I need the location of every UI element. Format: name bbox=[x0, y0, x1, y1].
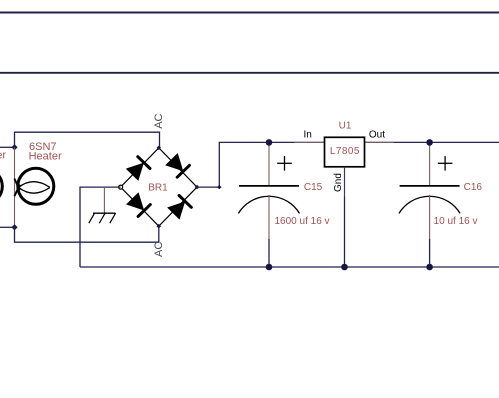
diode D-topleft bbox=[126, 163, 144, 181]
pin stub Out bbox=[365, 141, 394, 143]
capacitor C15 curved plate bbox=[238, 196, 299, 213]
tube V1 filament lower arc bbox=[19, 187, 50, 193]
svg-text:U1: U1 bbox=[339, 120, 352, 131]
capacitor C15 top lead bbox=[268, 142, 270, 186]
ground symbol bbox=[93, 212, 115, 214]
pin Gnd lead bbox=[344, 167, 346, 197]
junction dot C16 bottom bbox=[426, 264, 433, 271]
svg-text:AC: AC bbox=[153, 113, 165, 128]
svg-text:Heater: Heater bbox=[29, 151, 62, 163]
regulator U1 L7805 box bbox=[325, 137, 365, 167]
wire DC plus from right vertex bbox=[197, 142, 325, 187]
capacitor C15 plate bbox=[239, 185, 299, 187]
capacitor C16 curved plate bbox=[399, 196, 460, 213]
svg-text:BR1: BR1 bbox=[148, 183, 168, 194]
bridge BR1 edges bbox=[121, 148, 197, 226]
wire tube pins vertical bbox=[14, 147, 16, 227]
page rule second bbox=[0, 72, 499, 74]
svg-text:Out: Out bbox=[369, 130, 385, 141]
wire C16 bottom bbox=[429, 239, 431, 267]
wire C15 bottom bbox=[268, 239, 270, 267]
svg-text:1600 uf 16 v: 1600 uf 16 v bbox=[275, 216, 330, 227]
svg-text:C15: C15 bbox=[304, 182, 323, 193]
capacitor C16 bottom lead pin bbox=[429, 195, 431, 239]
tube V1 filament left tick A bbox=[14, 179, 19, 191]
junction dot C16 top bbox=[426, 139, 433, 146]
diode D-bottomleft bbox=[126, 192, 144, 210]
diode D-topright bbox=[165, 153, 183, 171]
svg-text:AC: AC bbox=[153, 242, 165, 257]
capacitor C16 plate bbox=[400, 185, 460, 187]
wire DC plus out side bbox=[365, 141, 499, 143]
wire left tube branch top bbox=[0, 146, 15, 148]
wire heater bottom bbox=[15, 226, 159, 242]
C16 polarity plus sign bbox=[438, 162, 453, 164]
tube V2 partial (cut at left edge) bbox=[0, 168, 2, 204]
junction dot top bbox=[11, 144, 17, 150]
diode D-bottomright bbox=[167, 201, 185, 219]
junction dot Gnd bottom bbox=[341, 264, 348, 271]
svg-text:C16: C16 bbox=[464, 182, 483, 193]
C15 polarity plus sign bbox=[277, 162, 292, 164]
wire DC minus bottom rail bbox=[80, 266, 499, 268]
svg-text:10 uf 16 v: 10 uf 16 v bbox=[434, 216, 478, 227]
capacitor C16 top lead bbox=[429, 142, 431, 186]
bridge vertex right dot bbox=[195, 185, 200, 190]
svg-text:In: In bbox=[304, 130, 312, 141]
wire heater top rail bbox=[15, 132, 160, 148]
bridge vertex top dot bbox=[157, 146, 161, 150]
page rule top bbox=[0, 12, 499, 14]
bridge vertex bottom dot bbox=[157, 224, 162, 229]
pin stub In bbox=[295, 141, 325, 143]
bridge vertex left circle bbox=[119, 185, 123, 189]
tube V1 filament left tick B bbox=[14, 185, 19, 197]
ground lead bbox=[103, 187, 105, 213]
svg-text:Gnd: Gnd bbox=[333, 173, 344, 192]
svg-text:L7805: L7805 bbox=[330, 146, 360, 157]
tube V1 filament upper arc bbox=[19, 182, 50, 188]
junction dot corner bbox=[217, 185, 221, 189]
tube V1 6SN7 envelope bbox=[18, 168, 54, 204]
wire left tube branch bottom bbox=[0, 226, 15, 228]
capacitor C15 bottom lead pin bbox=[268, 195, 270, 239]
wire DC minus from left vertex bbox=[80, 187, 121, 267]
svg-text:Heater: Heater bbox=[0, 149, 6, 161]
junction dot C15 bottom bbox=[266, 264, 273, 271]
junction dot bottom bbox=[11, 224, 17, 230]
junction dot C15 top bbox=[266, 139, 273, 146]
